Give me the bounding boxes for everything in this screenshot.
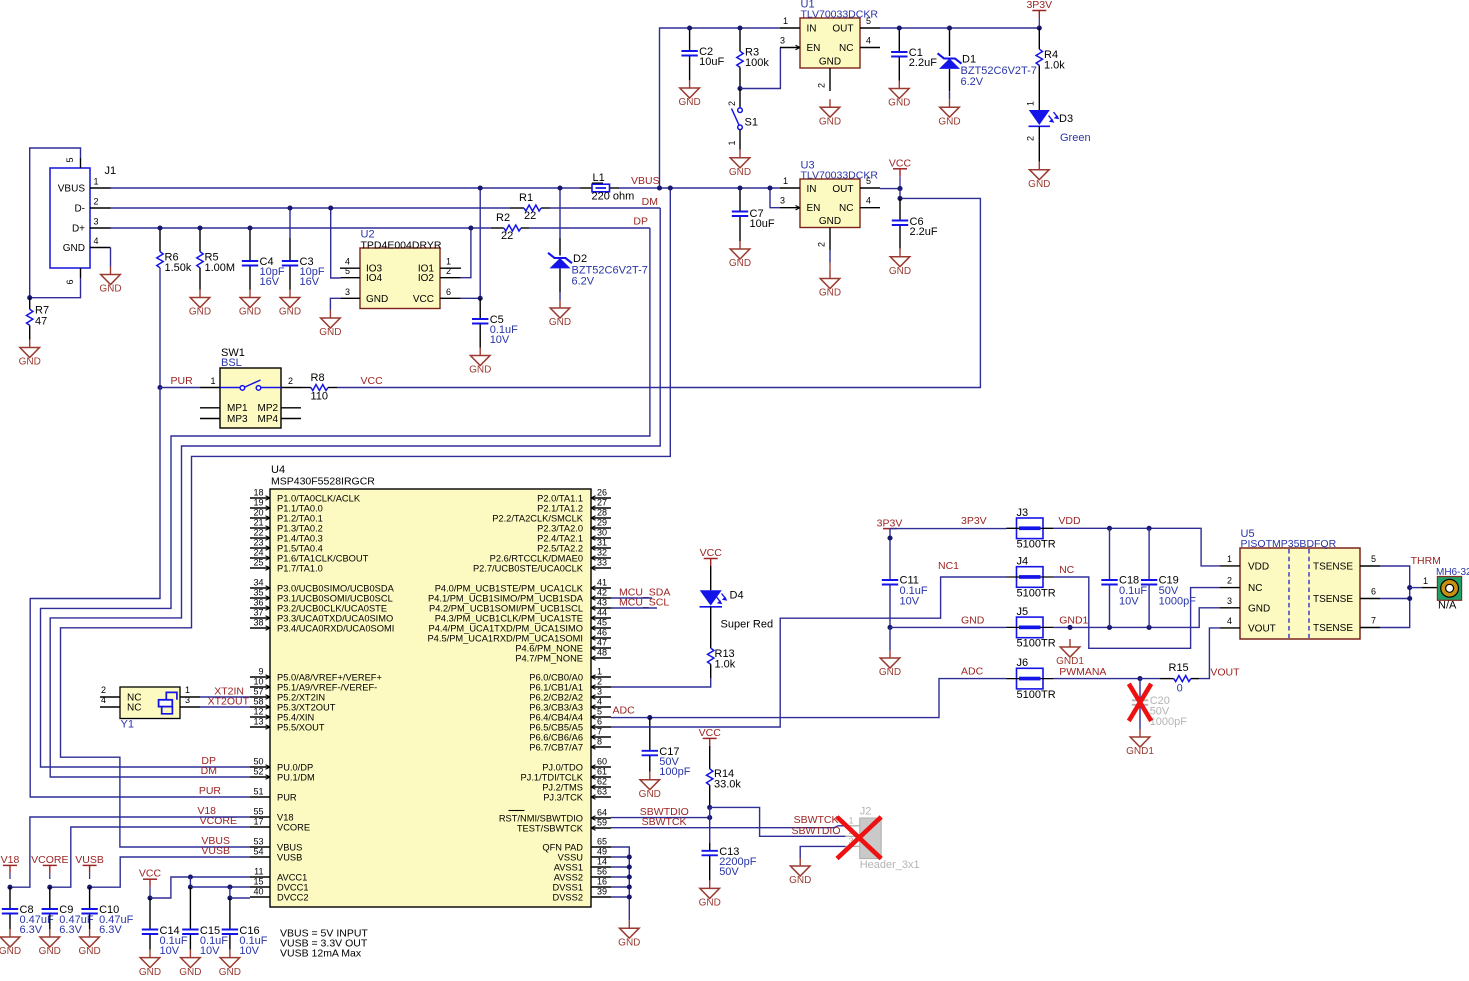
svg-text:1: 1 xyxy=(783,16,788,26)
svg-text:3P3V: 3P3V xyxy=(961,515,987,527)
svg-text:56: 56 xyxy=(597,867,607,877)
svg-text:3: 3 xyxy=(345,287,350,297)
capacitor C16 leads xyxy=(229,898,231,950)
svg-text:65: 65 xyxy=(597,837,607,847)
svg-text:1: 1 xyxy=(446,257,451,267)
svg-text:59: 59 xyxy=(597,818,607,828)
svg-text:2: 2 xyxy=(288,376,293,386)
jumper J3 xyxy=(1007,507,1056,551)
power symbol VCORE bottom xyxy=(31,854,68,879)
svg-text:VBUS: VBUS xyxy=(58,184,86,195)
wire R6 to PUR xyxy=(159,268,161,388)
svg-text:P1.0/TA0CLK/ACLK: P1.0/TA0CLK/ACLK xyxy=(277,493,361,503)
wire ADC from P6.4 xyxy=(611,679,1007,718)
svg-text:16V: 16V xyxy=(300,276,320,288)
net label SBWTCK at J2 xyxy=(794,814,839,826)
svg-text:GND: GND xyxy=(39,946,61,957)
capacitor C5 leads xyxy=(479,298,481,347)
svg-text:1000pF: 1000pF xyxy=(1159,596,1197,608)
svg-text:16: 16 xyxy=(597,877,607,887)
svg-text:EN: EN xyxy=(807,43,821,54)
svg-text:6.2V: 6.2V xyxy=(572,276,595,288)
net label VCC xyxy=(361,375,384,387)
capacitor C3 leads xyxy=(289,208,291,290)
net label DM xyxy=(642,196,658,208)
capacitor C9 leads xyxy=(49,887,51,929)
svg-text:GND1: GND1 xyxy=(1126,746,1154,757)
svg-text:55: 55 xyxy=(253,807,263,817)
svg-text:P6.3/CB3/A3: P6.3/CB3/A3 xyxy=(529,702,583,712)
ground GND xyxy=(469,348,491,376)
wire VBUS up to U1 IN xyxy=(660,28,781,188)
svg-text:VCC: VCC xyxy=(699,727,722,739)
svg-text:10V: 10V xyxy=(200,945,220,957)
svg-text:GND: GND xyxy=(1248,603,1270,614)
led D3 Green xyxy=(1026,101,1091,162)
svg-text:GND: GND xyxy=(639,789,661,800)
svg-text:51: 51 xyxy=(253,787,263,797)
svg-text:45: 45 xyxy=(597,618,607,628)
junction VBUS branch xyxy=(668,185,673,190)
svg-text:P4.4/PM_UCA1TXD/PM_UCA1SIMO: P4.4/PM_UCA1TXD/PM_UCA1SIMO xyxy=(429,623,583,633)
svg-text:2: 2 xyxy=(817,83,827,88)
ground GND xyxy=(179,950,201,978)
svg-text:1: 1 xyxy=(783,176,788,186)
wire U1 OUT rail xyxy=(880,27,1039,29)
net label VBUS bottom xyxy=(201,835,230,847)
capacitor C7 leads xyxy=(739,188,741,241)
wire DVCC2 row xyxy=(230,897,250,899)
svg-text:MP4: MP4 xyxy=(258,414,279,425)
wire VCORE net xyxy=(50,827,250,887)
svg-text:DP: DP xyxy=(633,216,648,228)
svg-text:MSP430F5528IRGCR: MSP430F5528IRGCR xyxy=(271,476,375,488)
svg-text:AVSS2: AVSS2 xyxy=(554,872,583,882)
wire TSENSE bus xyxy=(1380,566,1410,628)
power symbol 3P3V top xyxy=(1026,0,1052,28)
svg-text:3: 3 xyxy=(94,217,99,227)
capacitor C2 leads xyxy=(689,28,691,80)
wire U2 IO2 to DP xyxy=(461,228,471,278)
svg-text:1: 1 xyxy=(1227,554,1232,564)
svg-text:37: 37 xyxy=(253,608,263,618)
capacitor C3 xyxy=(282,256,325,288)
svg-text:4: 4 xyxy=(597,697,602,707)
svg-text:44: 44 xyxy=(597,608,607,618)
svg-text:D3: D3 xyxy=(1059,113,1073,125)
svg-text:61: 61 xyxy=(597,767,607,777)
svg-text:GND: GND xyxy=(819,57,841,68)
ic U3 TLV70033DCKR xyxy=(780,160,880,271)
wire VSS row 897 xyxy=(611,896,629,898)
net label SBWTDIO xyxy=(640,806,689,818)
wire SBWTDIO to C13 xyxy=(709,818,711,843)
wire DM from J1 pin2 xyxy=(111,207,511,209)
svg-text:GND: GND xyxy=(729,258,751,269)
junction 3P3V/C1 xyxy=(897,25,902,30)
net label PUR xyxy=(171,375,194,387)
svg-text:PJ.0/TDO: PJ.0/TDO xyxy=(542,762,583,772)
svg-text:GND: GND xyxy=(618,937,640,948)
wire VSS row 857 xyxy=(611,856,629,858)
svg-text:BSL: BSL xyxy=(221,357,242,369)
svg-text:IO4: IO4 xyxy=(366,273,383,284)
svg-text:P5.5/XOUT: P5.5/XOUT xyxy=(277,722,325,732)
net label ADC left xyxy=(613,705,636,717)
svg-text:36: 36 xyxy=(253,598,263,608)
ic U5 PISOTMP35BDFQR xyxy=(1220,528,1380,639)
zener diode D1 xyxy=(938,28,1037,99)
wire C11 gnd stub xyxy=(889,627,891,650)
svg-text:RST/NMI/SBWTDIO: RST/NMI/SBWTDIO xyxy=(499,813,583,823)
svg-text:SBWTDIO: SBWTDIO xyxy=(792,825,841,837)
jumper J5 xyxy=(1007,606,1056,650)
svg-text:20: 20 xyxy=(253,508,263,518)
svg-text:P1.7/TA1.0: P1.7/TA1.0 xyxy=(277,563,323,573)
svg-text:NC: NC xyxy=(1248,583,1262,594)
junction VDD/C19 xyxy=(1147,526,1152,531)
net label SBWTDIO at J2 xyxy=(792,825,841,837)
capacitor C17 leads xyxy=(649,718,651,772)
svg-text:VDD: VDD xyxy=(1248,561,1269,572)
junction 3P3V branch xyxy=(887,535,892,540)
svg-text:6.3V: 6.3V xyxy=(99,924,122,936)
junction PUR/R6 xyxy=(157,385,162,390)
junction pin6/R7 node xyxy=(27,295,32,300)
svg-text:N/A: N/A xyxy=(1438,599,1457,611)
net label NC1 xyxy=(938,560,959,572)
svg-text:21: 21 xyxy=(253,518,263,528)
ground GND xyxy=(319,310,341,338)
wire C15 drop xyxy=(189,877,191,887)
ic U1 TLV70033DCKR xyxy=(780,0,880,91)
svg-text:PU.1/DM: PU.1/DM xyxy=(277,772,315,782)
jumper J6 xyxy=(1007,657,1056,701)
wire SBWTDIO from pin64 xyxy=(611,817,710,819)
svg-text:GND: GND xyxy=(239,307,261,318)
svg-text:9: 9 xyxy=(258,667,263,677)
junction DP/R5 xyxy=(197,225,202,230)
svg-text:3P3V: 3P3V xyxy=(877,518,903,530)
svg-text:5: 5 xyxy=(597,707,602,717)
svg-text:48: 48 xyxy=(597,648,607,658)
svg-text:41: 41 xyxy=(597,578,607,588)
junction VCC/C14 xyxy=(147,895,152,900)
svg-text:P5.4/XIN: P5.4/XIN xyxy=(277,712,314,722)
svg-text:VCORE: VCORE xyxy=(277,822,310,832)
svg-text:GND: GND xyxy=(219,967,241,976)
svg-text:4: 4 xyxy=(101,695,106,705)
junction R14/SBWTDIO xyxy=(707,815,712,820)
net label MCU_SCL xyxy=(619,597,669,609)
svg-text:VOUT: VOUT xyxy=(1248,623,1276,634)
capacitor C4 xyxy=(242,256,285,288)
svg-text:PISOTMP35BDFQR: PISOTMP35BDFQR xyxy=(1241,538,1337,550)
svg-text:PUR: PUR xyxy=(171,375,194,387)
svg-text:XT2OUT: XT2OUT xyxy=(208,696,250,708)
svg-text:1: 1 xyxy=(597,667,602,677)
junction VBUS/D2 xyxy=(557,185,562,190)
junction GND1/C19 xyxy=(1147,625,1152,630)
svg-text:10V: 10V xyxy=(239,945,259,957)
svg-text:2: 2 xyxy=(597,677,602,687)
svg-text:P6.2/CB2/A2: P6.2/CB2/A2 xyxy=(529,692,583,702)
svg-text:2: 2 xyxy=(446,266,451,276)
mounting pad MH6-32 xyxy=(1422,567,1469,612)
net label ADC right xyxy=(961,666,984,678)
svg-text:4: 4 xyxy=(866,36,871,46)
wire U2 VCC pin6 to VBUS xyxy=(461,297,481,299)
junction DVCC2/C16 xyxy=(227,895,232,900)
svg-text:IN: IN xyxy=(807,184,817,195)
wire DM to U2 IO4 xyxy=(331,208,341,278)
svg-text:22: 22 xyxy=(501,230,513,242)
svg-text:GND: GND xyxy=(879,667,901,678)
svg-text:VCC: VCC xyxy=(889,157,912,169)
svg-text:10: 10 xyxy=(253,677,263,687)
wire DM to corner xyxy=(550,207,660,209)
svg-text:1: 1 xyxy=(94,177,99,187)
svg-text:GND: GND xyxy=(78,946,100,957)
svg-text:1.0k: 1.0k xyxy=(1044,60,1065,72)
svg-text:PU.0/DP: PU.0/DP xyxy=(277,762,313,772)
resistor R6 xyxy=(157,228,192,274)
svg-text:P6.0/CB0/A0: P6.0/CB0/A0 xyxy=(529,672,583,682)
crystal Y1 xyxy=(100,685,200,731)
svg-text:3P3V: 3P3V xyxy=(1026,0,1052,11)
svg-text:39: 39 xyxy=(597,887,607,897)
svg-text:5: 5 xyxy=(1371,554,1376,564)
svg-text:P5.1/A9/VREF-/VEREF-: P5.1/A9/VREF-/VEREF- xyxy=(277,682,377,692)
svg-text:33: 33 xyxy=(597,558,607,568)
wire XT2OUT xyxy=(200,706,250,708)
svg-text:6: 6 xyxy=(446,287,451,297)
svg-text:U4: U4 xyxy=(271,464,285,476)
wire VOUT to U5 pin4 xyxy=(1199,628,1220,679)
net label 3P3V xyxy=(961,515,987,527)
ground GND xyxy=(678,80,700,108)
wire DM to MCU xyxy=(50,208,660,777)
junction VBUS/U3 EN xyxy=(767,185,772,190)
svg-text:50: 50 xyxy=(253,757,263,767)
svg-text:33.0k: 33.0k xyxy=(714,779,741,791)
wire EN branch U3 xyxy=(770,188,780,208)
capacitor C5 xyxy=(472,314,518,346)
svg-text:1.0k: 1.0k xyxy=(715,659,736,671)
svg-text:30: 30 xyxy=(597,528,607,538)
svg-text:GND: GND xyxy=(549,317,571,328)
svg-text:D-: D- xyxy=(74,204,85,215)
svg-text:P4.1/PM_UCB1SIMO/PM_UCB1SDA: P4.1/PM_UCB1SIMO/PM_UCB1SDA xyxy=(428,593,584,603)
wire VBUS after L1 xyxy=(619,187,780,189)
switch S1 xyxy=(727,89,758,150)
svg-text:GND: GND xyxy=(729,167,751,178)
switch SW1 BSL xyxy=(200,347,301,428)
svg-text:6: 6 xyxy=(1371,587,1376,597)
svg-text:P4.3/PM_UCB1CLK/PM_UCA1STE: P4.3/PM_UCB1CLK/PM_UCA1STE xyxy=(435,613,583,623)
wire VSS row 877 xyxy=(611,876,629,878)
svg-text:GND: GND xyxy=(19,357,41,368)
junction U2 pin6 node xyxy=(478,296,483,301)
ground GND xyxy=(99,267,121,295)
junction VBUS/U1 branch xyxy=(657,185,662,190)
ground GND xyxy=(889,249,911,277)
note text under U4 xyxy=(280,928,368,960)
svg-text:ADC: ADC xyxy=(613,705,636,717)
svg-text:VDD: VDD xyxy=(1058,515,1081,527)
svg-text:DVCC1: DVCC1 xyxy=(277,882,309,892)
svg-text:3: 3 xyxy=(597,687,602,697)
net label DM bottom xyxy=(201,765,217,777)
wire VSS chain xyxy=(611,847,629,920)
svg-text:J1: J1 xyxy=(105,165,117,177)
svg-text:6: 6 xyxy=(597,717,602,727)
svg-text:13: 13 xyxy=(253,717,263,727)
ground GND xyxy=(789,858,811,886)
ground GND1 xyxy=(1126,729,1154,757)
svg-text:8: 8 xyxy=(597,737,602,747)
svg-text:P4.5/PM_UCA1RXD/PM_UCA1SOMI: P4.5/PM_UCA1RXD/PM_UCA1SOMI xyxy=(427,633,583,643)
svg-text:34: 34 xyxy=(253,578,263,588)
wire MCU_SDA stub xyxy=(611,597,652,599)
junction DM/IO4 xyxy=(328,205,333,210)
svg-text:GND: GND xyxy=(819,116,841,127)
svg-text:NC1: NC1 xyxy=(938,560,959,572)
svg-text:P1.2/TA0.1: P1.2/TA0.1 xyxy=(277,513,323,523)
svg-text:D1: D1 xyxy=(962,54,976,66)
svg-text:P3.0/UCB0SIMO/UCB0SDA: P3.0/UCB0SIMO/UCB0SDA xyxy=(277,583,395,593)
svg-text:P5.3/XT2OUT: P5.3/XT2OUT xyxy=(277,702,336,712)
svg-text:MP1: MP1 xyxy=(227,403,248,414)
wire NC to U5 pin2 xyxy=(1053,577,1220,648)
svg-text:63: 63 xyxy=(597,787,607,797)
capacitor C7 xyxy=(732,208,775,230)
svg-text:1: 1 xyxy=(185,685,190,695)
junction U1 in rail/R3 xyxy=(737,25,742,30)
header J2 (not fitted) xyxy=(845,806,919,872)
svg-text:5: 5 xyxy=(65,157,75,162)
svg-text:10uF: 10uF xyxy=(750,218,775,230)
svg-text:P1.3/TA0.2: P1.3/TA0.2 xyxy=(277,523,323,533)
resistor R14 xyxy=(707,746,742,807)
svg-text:P6.1/CB1/A1: P6.1/CB1/A1 xyxy=(529,682,583,692)
svg-text:GND: GND xyxy=(678,97,700,108)
svg-text:60: 60 xyxy=(597,757,607,767)
ground GND xyxy=(879,650,901,678)
net label THRM xyxy=(1411,555,1441,567)
wire J2 pin3 gnd xyxy=(800,846,845,858)
junction 3P3V/D1 xyxy=(947,25,952,30)
svg-text:16V: 16V xyxy=(260,276,280,288)
svg-text:53: 53 xyxy=(253,837,263,847)
svg-text:2: 2 xyxy=(1227,576,1232,586)
wire 3P3V row xyxy=(890,528,1007,530)
svg-text:P2.4/TA2.1: P2.4/TA2.1 xyxy=(537,533,583,543)
junction VSS node 887 xyxy=(627,884,632,889)
ground GND xyxy=(39,929,61,957)
zener diode D2 xyxy=(548,188,648,300)
capacitor C6 leads xyxy=(899,198,901,248)
svg-text:AVCC1: AVCC1 xyxy=(277,872,307,882)
capacitor C13 leads xyxy=(709,843,711,880)
capacitor C15 xyxy=(182,925,228,957)
svg-text:10V: 10V xyxy=(160,945,180,957)
svg-text:VBUS: VBUS xyxy=(277,842,302,852)
svg-text:P6.6/CB6/A6: P6.6/CB6/A6 xyxy=(529,732,583,742)
ground GND xyxy=(938,99,960,127)
svg-text:58: 58 xyxy=(253,697,263,707)
ground GND xyxy=(819,99,841,127)
svg-text:2: 2 xyxy=(727,101,737,106)
junction VSS node 857 xyxy=(627,854,632,859)
svg-text:4: 4 xyxy=(94,236,99,246)
svg-text:P5.0/A8/VREF+/VEREF+: P5.0/A8/VREF+/VEREF+ xyxy=(277,672,382,682)
svg-text:GND: GND xyxy=(0,946,21,957)
junction TSENSE/pad xyxy=(1407,585,1412,590)
wire DP from J1 pin3 xyxy=(111,227,491,229)
svg-text:P2.1/TA1.2: P2.1/TA1.2 xyxy=(537,503,583,513)
svg-text:10V: 10V xyxy=(900,596,920,608)
wire GND row to J5 xyxy=(890,626,1007,628)
svg-text:VUSB: VUSB xyxy=(277,852,302,862)
svg-text:P2.2/TA2CLK/SMCLK: P2.2/TA2CLK/SMCLK xyxy=(492,513,584,523)
wire GND1 row xyxy=(1053,608,1220,628)
svg-text:24: 24 xyxy=(253,548,263,558)
capacitor C10 xyxy=(81,904,133,936)
svg-text:DM: DM xyxy=(201,765,217,777)
svg-text:VCORE: VCORE xyxy=(31,854,68,866)
svg-text:MP2: MP2 xyxy=(258,403,279,414)
capacitor C8 leads xyxy=(9,887,11,929)
svg-text:2: 2 xyxy=(101,685,106,695)
svg-text:6.3V: 6.3V xyxy=(20,924,43,936)
ground GND xyxy=(819,271,841,299)
svg-text:57: 57 xyxy=(253,687,263,697)
svg-text:5100TR: 5100TR xyxy=(1017,539,1056,551)
svg-text:TSENSE: TSENSE xyxy=(1313,594,1353,605)
wire V18 net xyxy=(10,817,250,887)
svg-text:P2.7/UCB0STE/UCA0CLK: P2.7/UCB0STE/UCA0CLK xyxy=(473,563,584,573)
wire J1 pin5 loop to R7 xyxy=(30,148,81,298)
svg-text:GND: GND xyxy=(139,967,161,976)
svg-text:10uF: 10uF xyxy=(699,56,724,68)
svg-text:TSENSE: TSENSE xyxy=(1313,623,1353,634)
wire XT2IN xyxy=(200,696,250,698)
svg-text:GND: GND xyxy=(279,307,301,318)
svg-text:PJ.2/TMS: PJ.2/TMS xyxy=(542,782,583,792)
svg-text:V18: V18 xyxy=(277,812,294,822)
svg-text:OUT: OUT xyxy=(832,184,853,195)
net label DP xyxy=(633,216,648,228)
net label V18 xyxy=(197,805,216,817)
svg-text:VUSB 12mA Max: VUSB 12mA Max xyxy=(280,948,362,960)
svg-text:50V: 50V xyxy=(719,866,739,878)
junction GND/C11 xyxy=(887,625,892,630)
wire VCC to AVCC1 xyxy=(150,877,250,898)
svg-text:43: 43 xyxy=(597,598,607,608)
ground GND xyxy=(699,880,721,908)
wire U3 OUT to VCC node xyxy=(880,188,900,190)
capacitor C17 xyxy=(642,746,691,778)
svg-text:PUR: PUR xyxy=(277,792,297,802)
svg-text:P3.2/UCB0CLK/UCA0STE: P3.2/UCB0CLK/UCA0STE xyxy=(277,603,387,613)
svg-text:Green: Green xyxy=(1060,132,1091,144)
junction DVCC1/C15 xyxy=(188,884,193,889)
svg-text:100k: 100k xyxy=(745,57,769,69)
junction VCORE/C9 xyxy=(47,885,52,890)
junction VSS node 867 xyxy=(627,864,632,869)
wire SBWTCK from pin59 xyxy=(611,826,845,828)
